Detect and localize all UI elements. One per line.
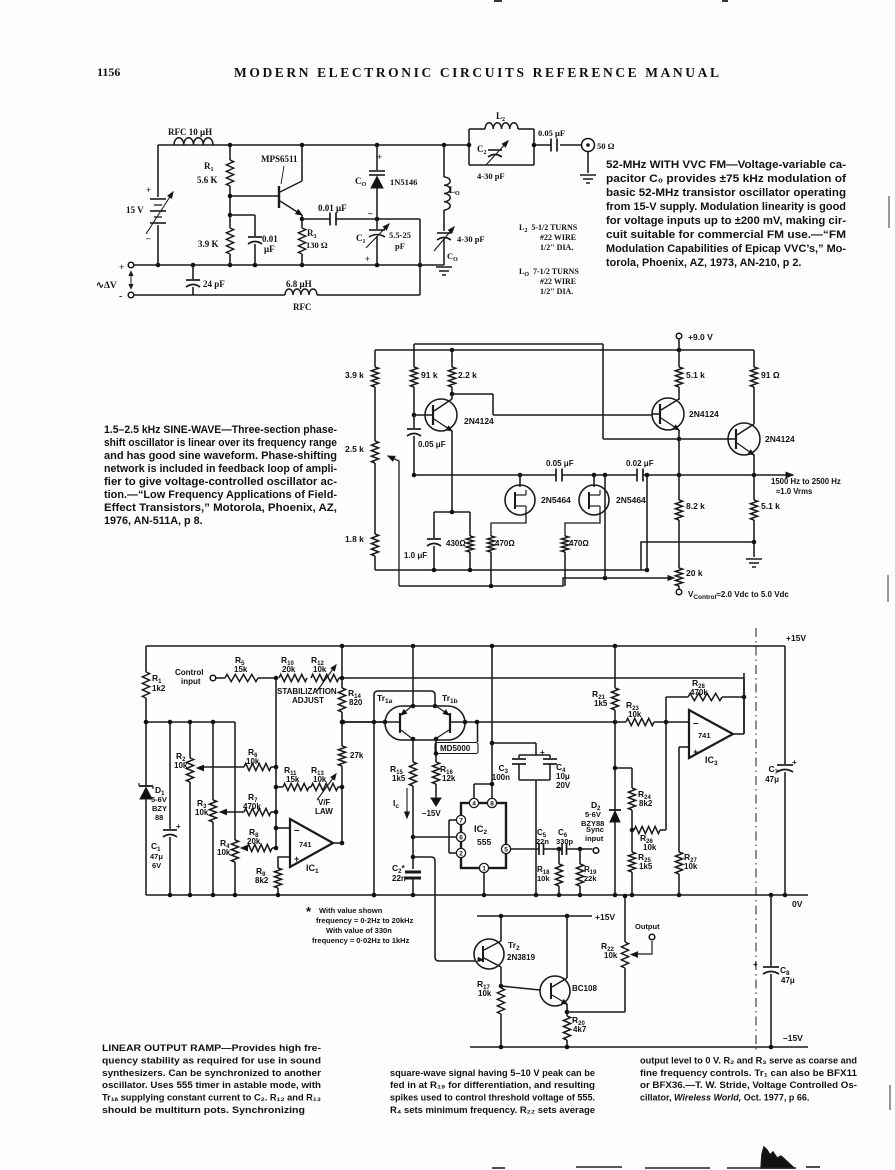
svg-text:Modulation Capabilities of Epi: Modulation Capabilities of Epicap VVC’s,… xyxy=(606,243,846,255)
svg-text:1.0 μF: 1.0 μF xyxy=(404,551,427,560)
svg-text:Effect Transistors,” Motorola,: Effect Transistors,” Motorola, Phoenix, … xyxy=(104,502,337,514)
svg-text:91 k: 91 k xyxy=(421,370,438,380)
svg-text:27k: 27k xyxy=(350,751,364,760)
svg-text:8: 8 xyxy=(490,800,494,807)
svg-text:+15V: +15V xyxy=(786,633,806,643)
svg-text:#22 WIRE: #22 WIRE xyxy=(540,233,576,242)
svg-text:+: + xyxy=(119,262,124,272)
svg-text:L2: L2 xyxy=(496,111,505,123)
svg-text:Output: Output xyxy=(635,922,660,931)
svg-text:5.6 K: 5.6 K xyxy=(197,175,218,185)
svg-text:+: + xyxy=(753,960,758,969)
svg-text:4-30 pF: 4-30 pF xyxy=(477,171,505,181)
svg-text:741: 741 xyxy=(698,731,711,740)
svg-text:4: 4 xyxy=(472,800,476,807)
svg-text:and has good sine waveform. Ph: and has good sine waveform. Phase-shifti… xyxy=(104,450,337,462)
svg-text:47μ: 47μ xyxy=(781,976,795,985)
svg-text:2N4124: 2N4124 xyxy=(689,409,719,419)
svg-text:430Ω: 430Ω xyxy=(446,539,466,548)
svg-text:pacitor C₀ provides ±75 kHz mo: pacitor C₀ provides ±75 kHz modulation o… xyxy=(606,173,846,185)
svg-text:should be multiturn pots. Sync: should be multiturn pots. Synchronizing xyxy=(102,1105,305,1115)
svg-text:330p: 330p xyxy=(556,837,574,846)
svg-text:IC2: IC2 xyxy=(474,824,488,836)
svg-text:6: 6 xyxy=(459,834,463,841)
svg-text:8k2: 8k2 xyxy=(639,799,653,808)
svg-text:741: 741 xyxy=(299,840,312,849)
svg-text:5.5-25: 5.5-25 xyxy=(389,230,411,240)
svg-text:2.2 k: 2.2 k xyxy=(458,370,477,380)
svg-text:0.05 μF: 0.05 μF xyxy=(546,459,574,468)
svg-text:Tr1b: Tr1b xyxy=(442,693,458,705)
svg-text:0.05 μF: 0.05 μF xyxy=(538,128,565,138)
svg-text:∿ΔV: ∿ΔV xyxy=(96,281,117,291)
svg-text:_: _ xyxy=(145,230,151,240)
svg-text:2N4124: 2N4124 xyxy=(464,416,494,426)
svg-text:6.8 μH: 6.8 μH xyxy=(286,279,312,289)
svg-text:10k: 10k xyxy=(604,951,618,960)
svg-text:CO: CO xyxy=(447,251,458,263)
svg-text:10k: 10k xyxy=(478,989,492,998)
svg-text:BZY88: BZY88 xyxy=(581,819,604,828)
svg-text:+: + xyxy=(294,854,299,864)
svg-text:5: 5 xyxy=(504,846,508,853)
svg-text:820: 820 xyxy=(349,698,363,707)
svg-text:*: * xyxy=(306,904,312,919)
svg-text:1.8 k: 1.8 k xyxy=(345,534,364,544)
svg-text:100n: 100n xyxy=(492,773,510,782)
svg-text:LO: LO xyxy=(449,185,460,197)
svg-text:91 Ω: 91 Ω xyxy=(761,370,780,380)
svg-text:15k: 15k xyxy=(234,665,248,674)
svg-text:0.01: 0.01 xyxy=(262,234,278,244)
svg-text:1976, AN-511A, p 8.: 1976, AN-511A, p 8. xyxy=(104,515,203,527)
svg-text:cillator, Wireless World, Oct.: cillator, Wireless World, Oct. 1977, p 6… xyxy=(640,1093,809,1103)
svg-text:_: _ xyxy=(367,205,373,215)
svg-text:fed in at R₁₉ for differentiat: fed in at R₁₉ for differentiation, and r… xyxy=(390,1080,595,1090)
svg-text:RFC: RFC xyxy=(293,302,312,312)
svg-text:for voltage inputs up to ±200: for voltage inputs up to ±200 mV, making… xyxy=(606,215,846,227)
svg-text:frequency = 0·2Hz to 20kHz: frequency = 0·2Hz to 20kHz xyxy=(316,916,414,925)
svg-text:0.01 μF: 0.01 μF xyxy=(318,203,347,213)
svg-text:10k: 10k xyxy=(537,874,550,883)
svg-text:input: input xyxy=(181,677,201,686)
svg-text:1: 1 xyxy=(482,865,486,872)
svg-text:R₄ sets minimum frequency. R₂₂: R₄ sets minimum frequency. R₂₂ sets aver… xyxy=(390,1105,595,1115)
svg-text:network is included in feedbac: network is included in feedback loop of … xyxy=(104,463,337,475)
svg-text:or BFX36.—T. W. Stride, Voltag: or BFX36.—T. W. Stride, Voltage Controll… xyxy=(640,1080,857,1090)
svg-text:1156: 1156 xyxy=(97,65,120,79)
svg-text:+: + xyxy=(365,254,370,264)
svg-text:12k: 12k xyxy=(442,774,456,783)
svg-text:input: input xyxy=(585,834,604,843)
svg-text:torola, Phoenix, AZ, 1973, AN-: torola, Phoenix, AZ, 1973, AN-210, p 2. xyxy=(606,257,801,269)
svg-text:2.5 k: 2.5 k xyxy=(345,444,364,454)
svg-text:88: 88 xyxy=(155,813,163,822)
svg-text:–: – xyxy=(294,825,300,836)
svg-text:10k: 10k xyxy=(684,862,698,871)
svg-text:2N3819: 2N3819 xyxy=(507,953,536,962)
svg-text:LAW: LAW xyxy=(315,807,333,816)
svg-text:8k2: 8k2 xyxy=(255,876,269,885)
svg-text:spikes used to control thresho: spikes used to control threshold voltage… xyxy=(390,1093,595,1103)
svg-text:22n: 22n xyxy=(536,837,549,846)
svg-text:52-MHz WITH VVC FM—Voltage-var: 52-MHz WITH VVC FM—Voltage-variable ca- xyxy=(606,159,846,171)
svg-text:10k: 10k xyxy=(195,808,209,817)
svg-text:1.5–2.5 kHz SINE-WAVE—Three-se: 1.5–2.5 kHz SINE-WAVE—Three-section phas… xyxy=(104,424,337,436)
svg-text:20k: 20k xyxy=(282,665,296,674)
svg-text:fine frequency controls. Tr₁ c: fine frequency controls. Tr₁ can also be… xyxy=(640,1068,857,1078)
svg-text:7: 7 xyxy=(459,817,463,824)
svg-text:1k5: 1k5 xyxy=(639,862,653,871)
svg-text:shift oscillator is linear ove: shift oscillator is linear over its freq… xyxy=(104,437,337,449)
svg-text:basic 52-MHz transistor oscill: basic 52-MHz transistor oscillator opera… xyxy=(606,187,846,199)
svg-text:STABILIZATION: STABILIZATION xyxy=(277,687,337,696)
svg-text:2: 2 xyxy=(459,850,463,857)
svg-text:+: + xyxy=(693,747,698,757)
svg-text:CO: CO xyxy=(355,176,367,188)
svg-text:1/2" DIA.: 1/2" DIA. xyxy=(540,243,573,252)
svg-text:22k: 22k xyxy=(584,874,597,883)
svg-text:IC3: IC3 xyxy=(705,755,718,767)
svg-text:–15V: –15V xyxy=(783,1033,803,1043)
svg-text:synthesizers. Can be synchroni: synthesizers. Can be synchronized to ano… xyxy=(102,1068,322,1078)
svg-text:555: 555 xyxy=(477,837,491,847)
svg-text:2N5464: 2N5464 xyxy=(541,495,571,505)
svg-text:50 Ω: 50 Ω xyxy=(597,141,615,151)
svg-text:from 15-V supply. Modulation l: from 15-V supply. Modulation linearity i… xyxy=(606,201,846,213)
svg-text:+: + xyxy=(377,152,382,162)
svg-text:square-wave signal having 5–10: square-wave signal having 5–10 V peak ca… xyxy=(390,1068,595,1078)
svg-text:1k5: 1k5 xyxy=(594,699,608,708)
svg-text:IC1: IC1 xyxy=(306,863,319,875)
svg-text:pF: pF xyxy=(395,241,405,251)
svg-text:oscillator. Uses 555 timer in: oscillator. Uses 555 timer in astable mo… xyxy=(102,1080,321,1090)
svg-text:24 pF: 24 pF xyxy=(203,279,225,289)
svg-text:V/F: V/F xyxy=(318,798,331,807)
svg-text:C2: C2 xyxy=(477,144,487,156)
svg-text:4-30 pF: 4-30 pF xyxy=(457,234,485,244)
svg-text:5.1 k: 5.1 k xyxy=(686,370,705,380)
svg-text:15 V: 15 V xyxy=(126,205,144,215)
svg-text:1/2" DIA.: 1/2" DIA. xyxy=(540,287,573,296)
svg-text:5.1 k: 5.1 k xyxy=(761,501,780,511)
svg-text:RFC 10 μH: RFC 10 μH xyxy=(168,127,212,137)
svg-text:VControl≈2.0 Vdc to 5.0 Vdc: VControl≈2.0 Vdc to 5.0 Vdc xyxy=(688,590,789,601)
svg-text:frequency = 0·02Hz to 1kHz: frequency = 0·02Hz to 1kHz xyxy=(312,936,410,945)
svg-text:3.9 k: 3.9 k xyxy=(345,370,364,380)
svg-text:quency stability as required f: quency stability as required for use in … xyxy=(102,1055,321,1065)
svg-text:10μ: 10μ xyxy=(556,772,570,781)
svg-text:1k2: 1k2 xyxy=(152,684,166,693)
svg-text:10k: 10k xyxy=(174,761,188,770)
svg-text:-: - xyxy=(119,291,122,302)
svg-text:2N4124: 2N4124 xyxy=(765,434,795,444)
svg-text:ADJUST: ADJUST xyxy=(292,696,324,705)
svg-text:With value of 330n: With value of 330n xyxy=(326,926,392,935)
svg-text:130 Ω: 130 Ω xyxy=(306,240,328,250)
svg-text:R1: R1 xyxy=(204,161,214,173)
svg-text:Tr₁ₐ supplying constant curren: Tr₁ₐ supplying constant current to C₂. R… xyxy=(102,1093,321,1103)
svg-text:10k: 10k xyxy=(313,665,327,674)
svg-text:+15V: +15V xyxy=(595,912,615,922)
svg-text:470Ω: 470Ω xyxy=(569,539,589,548)
svg-text:Control: Control xyxy=(175,668,203,677)
svg-text:C1: C1 xyxy=(356,233,366,245)
svg-text:tion.—“Low Frequency Applicati: tion.—“Low Frequency Applications of Fie… xyxy=(104,489,337,501)
svg-text:R3: R3 xyxy=(307,228,317,240)
svg-text:1N5146: 1N5146 xyxy=(390,177,417,187)
svg-text:20V: 20V xyxy=(556,781,571,790)
svg-text:6V: 6V xyxy=(152,861,161,870)
svg-text:BZY: BZY xyxy=(152,804,167,813)
svg-text:3.9 K: 3.9 K xyxy=(198,239,219,249)
svg-text:20 k: 20 k xyxy=(686,568,703,578)
svg-text:+: + xyxy=(792,758,797,767)
svg-text:fier to give voltage-controlle: fier to give voltage-controlled oscillat… xyxy=(104,476,337,488)
svg-text:10k: 10k xyxy=(313,775,327,784)
svg-text:+: + xyxy=(540,748,545,757)
svg-text:470k: 470k xyxy=(690,688,708,697)
svg-text:10k: 10k xyxy=(643,843,657,852)
svg-text:cuit suitable for commercial F: cuit suitable for commercial FM use.—“FM xyxy=(606,229,846,241)
svg-text:2N5464: 2N5464 xyxy=(616,495,646,505)
svg-text:–: – xyxy=(693,718,699,729)
svg-text:5·6V: 5·6V xyxy=(585,810,601,819)
svg-text:#22 WIRE: #22 WIRE xyxy=(540,277,576,286)
svg-text:47μ: 47μ xyxy=(150,852,163,861)
svg-text:10k: 10k xyxy=(628,710,642,719)
svg-text:Ic: Ic xyxy=(393,798,399,810)
svg-text:1500 Hz to 2500 Hz: 1500 Hz to 2500 Hz xyxy=(771,477,841,486)
svg-text:20k: 20k xyxy=(247,837,261,846)
svg-text:10k: 10k xyxy=(246,757,260,766)
svg-text:0.05 μF: 0.05 μF xyxy=(418,440,446,449)
svg-text:With value shown: With value shown xyxy=(319,906,383,915)
svg-text:LINEAR OUTPUT RAMP—Provides hi: LINEAR OUTPUT RAMP—Provides high fre- xyxy=(102,1043,321,1053)
svg-text:4k7: 4k7 xyxy=(573,1025,587,1034)
svg-text:MPS6511: MPS6511 xyxy=(261,154,298,164)
svg-text:+: + xyxy=(176,822,181,831)
svg-text:22n: 22n xyxy=(392,874,406,883)
svg-text:8.2 k: 8.2 k xyxy=(686,501,705,511)
svg-text:BC108: BC108 xyxy=(572,984,597,993)
svg-text:MODERN ELECTRONIC CIRCUITS REF: MODERN ELECTRONIC CIRCUITS REFERENCE MAN… xyxy=(234,65,722,80)
svg-text:0V: 0V xyxy=(792,899,803,909)
svg-text:≈1.0 Vrms: ≈1.0 Vrms xyxy=(776,487,813,496)
svg-text:15k: 15k xyxy=(286,775,300,784)
svg-text:470Ω: 470Ω xyxy=(495,539,515,548)
svg-text:47μ: 47μ xyxy=(765,775,779,784)
svg-text:0.02 μF: 0.02 μF xyxy=(626,459,654,468)
svg-text:470k: 470k xyxy=(243,802,261,811)
svg-text:output level to 0 V. R₂ and R₃: output level to 0 V. R₂ and R₃ serve as … xyxy=(640,1055,857,1065)
svg-text:10k: 10k xyxy=(217,848,231,857)
svg-text:Tr2: Tr2 xyxy=(508,940,520,952)
svg-text:Tr1a: Tr1a xyxy=(377,693,393,705)
svg-text:+9.0 V: +9.0 V xyxy=(688,332,713,342)
svg-text:MD5000: MD5000 xyxy=(440,744,471,753)
svg-text:1k5: 1k5 xyxy=(392,774,406,783)
svg-text:–15V: –15V xyxy=(422,809,441,818)
svg-text:μF: μF xyxy=(264,244,275,254)
svg-text:+: + xyxy=(146,185,151,195)
svg-text:5-6V: 5-6V xyxy=(151,795,167,804)
